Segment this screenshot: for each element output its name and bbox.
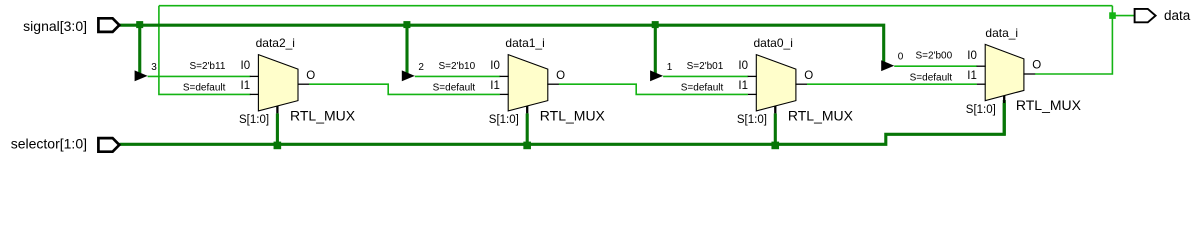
svg-text:I0: I0: [967, 50, 977, 62]
svg-text:0: 0: [898, 52, 904, 63]
wire: signal bit 3 tap vertical: [138, 25, 141, 73]
wire: signal bit 2 tap vertical: [405, 25, 408, 73]
svg-text:data: data: [1164, 8, 1191, 23]
wire: selector[1:0] bus trunk: [120, 100, 1005, 144]
svg-text:S[1:0]: S[1:0]: [239, 114, 269, 126]
svg-text:S=2'b00: S=2'b00: [916, 51, 953, 62]
wire: selector branch to S pin of data0_i: [774, 113, 777, 145]
svg-text:RTL_MUX: RTL_MUX: [290, 107, 356, 123]
port signal[3:0]: [98, 18, 119, 32]
svg-text:3: 3: [151, 62, 157, 73]
pin stub S of data_i: [1003, 96, 1005, 103]
svg-text:O: O: [804, 70, 813, 82]
wire: data2_i O to data1_i I1: [309, 84, 500, 94]
junction on signal bus for data2_i tap: [136, 21, 143, 28]
svg-text:I0: I0: [241, 60, 251, 72]
pin stub I0 of data1_i: [500, 75, 509, 77]
wire: selector branch to S pin of data_i: [1003, 103, 1006, 135]
bus tap triangle, bit 2 of signal: [402, 70, 415, 81]
pin stub I0 of data_i: [977, 65, 986, 67]
pin stub I1 of data2_i: [250, 93, 259, 95]
pin stub S of data1_i: [526, 106, 528, 113]
svg-text:RTL_MUX: RTL_MUX: [788, 107, 854, 123]
svg-text:S=default: S=default: [910, 72, 953, 83]
svg-text:signal[3:0]: signal[3:0]: [23, 18, 87, 34]
svg-text:I1: I1: [738, 80, 748, 92]
wire: tap to data2_i I0: [148, 75, 251, 77]
wire: data_i O to output column: [1035, 6, 1112, 74]
svg-text:O: O: [1032, 60, 1041, 72]
pin stub I1 of data_i: [977, 83, 986, 85]
wire: selector branch to S pin of data1_i: [526, 113, 529, 145]
svg-text:O: O: [306, 70, 315, 82]
junction on selector bus for data2_i: [274, 142, 282, 150]
svg-text:I0: I0: [490, 60, 500, 72]
pin stub O of data0_i: [795, 83, 807, 85]
junction on selector bus for data1_i: [523, 142, 531, 150]
pin stub I1 of data1_i: [500, 93, 509, 95]
junction on signal bus for data1_i tap: [403, 21, 410, 28]
svg-text:S=default: S=default: [681, 83, 724, 94]
svg-text:data_i: data_i: [985, 26, 1018, 40]
svg-text:I1: I1: [241, 80, 251, 92]
mux data2_i body (RTL_MUX trapezoid): [258, 55, 298, 111]
wire: selector branch to S pin of data2_i: [276, 113, 279, 145]
svg-text:S[1:0]: S[1:0]: [737, 114, 767, 126]
svg-text:S[1:0]: S[1:0]: [966, 104, 996, 116]
pin stub O of data_i: [1023, 73, 1035, 75]
wire: junction to data port: [1112, 15, 1134, 17]
mux data_i body (RTL_MUX trapezoid): [985, 44, 1024, 100]
pin stub S of data2_i: [276, 106, 278, 113]
wire: data1_i O to data0_i I1: [559, 84, 748, 94]
bus tap triangle, bit 0 of signal: [881, 60, 894, 71]
bus tap triangle, bit 1 of signal: [650, 70, 663, 81]
junction at data output tee: [1109, 12, 1116, 19]
wire: feedback net vertical drop to data2_i I1: [159, 6, 251, 95]
svg-text:data2_i: data2_i: [256, 36, 295, 50]
wire: tap to data_i I0: [894, 65, 977, 67]
mux data1_i body (RTL_MUX trapezoid): [508, 55, 548, 111]
svg-text:I1: I1: [490, 80, 500, 92]
port selector[1:0]: [98, 138, 119, 152]
wire: data0_i O to data_i I1: [807, 83, 977, 85]
pin stub I1 of data0_i: [748, 93, 757, 95]
svg-text:I1: I1: [967, 70, 977, 82]
wire: feedback net data, top horizontal: [159, 5, 1113, 7]
svg-text:S=2'b10: S=2'b10: [439, 61, 476, 72]
svg-text:S=2'b01: S=2'b01: [687, 61, 724, 72]
svg-text:RTL_MUX: RTL_MUX: [540, 107, 606, 123]
svg-text:S=default: S=default: [433, 83, 476, 94]
svg-text:data0_i: data0_i: [754, 36, 793, 50]
svg-text:S=default: S=default: [183, 83, 226, 94]
mux data0_i body (RTL_MUX trapezoid): [756, 55, 796, 111]
pin stub O of data2_i: [298, 83, 310, 85]
wire: tap to data1_i I0: [415, 75, 500, 77]
junction on signal bus for data0_i tap: [652, 21, 659, 28]
junction on selector bus for data0_i: [771, 142, 779, 150]
svg-text:2: 2: [418, 62, 424, 73]
port data (output): [1135, 9, 1156, 22]
svg-text:RTL_MUX: RTL_MUX: [1016, 97, 1082, 113]
svg-text:S[1:0]: S[1:0]: [489, 114, 519, 126]
svg-text:I0: I0: [738, 60, 748, 72]
svg-text:selector[1:0]: selector[1:0]: [11, 136, 87, 152]
wire: tap to data0_i I0: [663, 75, 748, 77]
bus tap triangle, bit 3 of signal: [135, 70, 148, 81]
pin stub O of data1_i: [547, 83, 559, 85]
svg-text:O: O: [556, 70, 565, 82]
svg-text:1: 1: [667, 62, 673, 73]
svg-text:data1_i: data1_i: [505, 36, 544, 50]
pin stub S of data0_i: [774, 106, 776, 113]
svg-text:S=2'b11: S=2'b11: [189, 61, 225, 72]
wire: signal[3:0] bus trunk: [120, 25, 884, 64]
wire: signal bit 1 tap vertical: [654, 25, 657, 73]
pin stub I0 of data2_i: [250, 75, 259, 77]
pin stub I0 of data0_i: [748, 75, 757, 77]
